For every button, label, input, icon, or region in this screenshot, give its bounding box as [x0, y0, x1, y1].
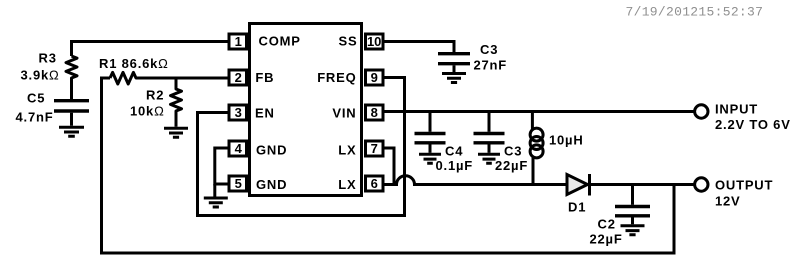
svg-text:10kΩ: 10kΩ: [130, 104, 165, 119]
svg-text:3: 3: [235, 105, 242, 120]
svg-text:10: 10: [367, 34, 381, 49]
svg-text:EN: EN: [255, 105, 275, 120]
svg-text:C5: C5: [27, 91, 45, 106]
svg-text:6: 6: [371, 176, 378, 191]
svg-text:7: 7: [371, 141, 378, 156]
svg-text:4: 4: [235, 141, 243, 156]
svg-text:2.2V TO 6V: 2.2V TO 6V: [715, 117, 791, 132]
svg-text:22µF: 22µF: [495, 158, 528, 173]
svg-text:C3: C3: [480, 42, 498, 57]
svg-text:C2: C2: [598, 217, 616, 232]
svg-text:5: 5: [235, 176, 242, 191]
svg-text:4.7nF: 4.7nF: [16, 110, 54, 125]
svg-text:R3: R3: [39, 51, 57, 66]
svg-text:2: 2: [235, 70, 242, 85]
svg-text:LX: LX: [338, 143, 356, 158]
svg-text:8: 8: [371, 105, 378, 120]
svg-text:10µH: 10µH: [549, 133, 584, 148]
svg-text:1: 1: [235, 34, 242, 49]
svg-text:GND: GND: [256, 143, 287, 158]
svg-text:INPUT: INPUT: [715, 102, 758, 117]
svg-text:7/19/201215:52:37: 7/19/201215:52:37: [626, 5, 764, 20]
svg-text:OUTPUT: OUTPUT: [715, 178, 773, 193]
svg-text:FREQ: FREQ: [317, 70, 356, 85]
svg-text:SS: SS: [339, 33, 358, 48]
svg-text:9: 9: [371, 70, 378, 85]
svg-text:GND: GND: [256, 177, 287, 192]
svg-text:22µF: 22µF: [590, 232, 623, 247]
svg-text:VIN: VIN: [332, 105, 356, 120]
svg-text:R1 86.6kΩ: R1 86.6kΩ: [99, 56, 169, 71]
svg-text:LX: LX: [338, 177, 356, 192]
svg-text:C3: C3: [504, 144, 522, 159]
svg-text:COMP: COMP: [259, 33, 301, 48]
svg-text:3.9kΩ: 3.9kΩ: [21, 68, 60, 83]
svg-text:FB: FB: [255, 70, 274, 85]
svg-text:D1: D1: [568, 200, 586, 215]
svg-text:C4: C4: [445, 144, 463, 159]
svg-text:27nF: 27nF: [474, 58, 508, 73]
svg-text:0.1µF: 0.1µF: [436, 158, 474, 173]
svg-text:12V: 12V: [715, 194, 741, 209]
svg-text:R2: R2: [146, 88, 164, 103]
